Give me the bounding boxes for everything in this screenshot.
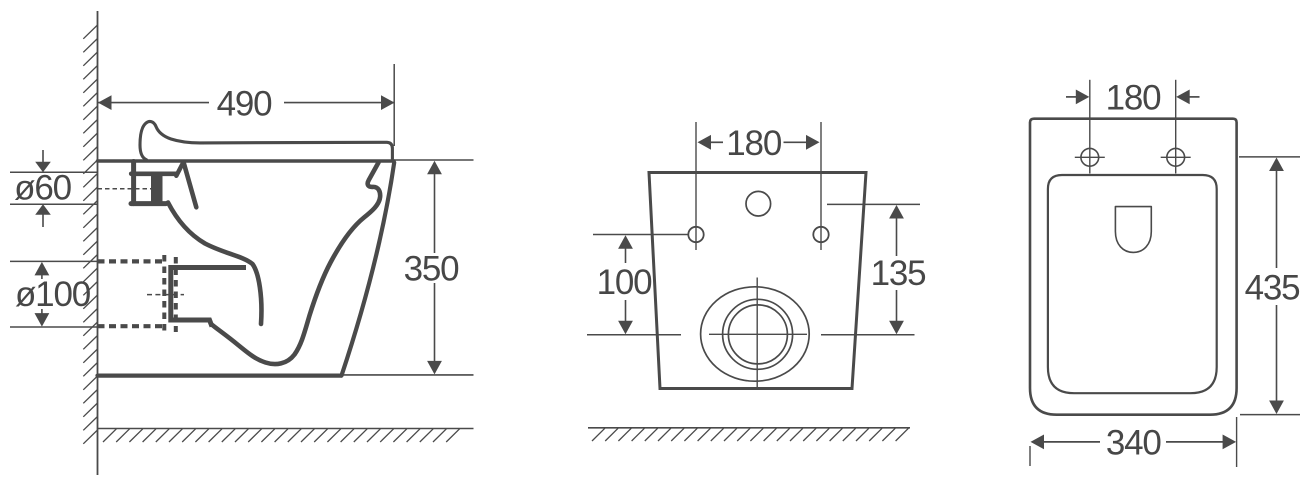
340 right arrowhead <box>1223 435 1237 450</box>
ø60 bottom arrow shaft <box>42 214 44 227</box>
350 dim shaft lower <box>434 283 436 362</box>
100 top ext line <box>593 234 688 236</box>
rim extension thin line <box>394 159 474 161</box>
arrowhead left 490 <box>98 95 112 110</box>
outlet outer ellipse <box>701 287 810 381</box>
arrowhead right 490 <box>381 95 395 110</box>
ground hatching middle <box>592 428 908 441</box>
wall line <box>97 11 99 475</box>
ø60 bottom arrowhead <box>35 204 51 215</box>
135 top ext line <box>827 203 920 205</box>
drain pipe centerline <box>147 294 184 296</box>
thick dashed drain bottom <box>98 324 165 328</box>
svg-text:ø100: ø100 <box>15 275 91 314</box>
dim line 490 right segment <box>284 102 395 104</box>
svg-text:100: 100 <box>597 263 653 302</box>
ø100 dim shaft upper <box>41 272 43 279</box>
dashed flange line right <box>174 257 178 332</box>
rim line <box>98 159 395 162</box>
svg-text:350: 350 <box>404 250 460 289</box>
outlet vertical centerline <box>756 278 758 390</box>
arrowhead right <box>806 135 820 150</box>
arrowhead left <box>698 135 712 150</box>
ext line ø100 bottom <box>10 326 98 328</box>
spud top bar <box>131 172 176 177</box>
ext line ø60 top <box>10 171 98 173</box>
435 bottom ext line <box>1240 414 1300 416</box>
floor hatching <box>103 429 460 442</box>
outlet inner circle <box>728 305 787 364</box>
350 up arrowhead <box>427 161 442 175</box>
svg-text:180: 180 <box>1106 79 1162 118</box>
svg-text:435: 435 <box>1245 269 1300 308</box>
flush channel right diagonal <box>184 162 197 207</box>
water inlet spud <box>131 162 136 204</box>
right fixing hole <box>813 227 828 242</box>
outlet middle circle <box>723 299 793 369</box>
340 left ext line <box>1029 446 1031 466</box>
135 bottom ext line <box>821 334 915 336</box>
seat lid profile <box>140 122 392 160</box>
pedestal front slant line <box>342 163 395 376</box>
ø100 down arrowhead <box>35 313 50 327</box>
inner seat opening <box>1048 175 1217 393</box>
svg-text:ø60: ø60 <box>14 168 71 207</box>
thick dashed drain top <box>98 259 165 263</box>
svg-text:135: 135 <box>871 254 926 293</box>
350 dim shaft upper <box>434 173 436 253</box>
ext line ø100 top <box>10 260 98 262</box>
hinge hole right <box>1167 148 1185 166</box>
floor line <box>98 428 474 430</box>
svg-text:180: 180 <box>726 124 782 163</box>
body trapezoid <box>649 173 866 389</box>
wall hatching <box>83 25 97 444</box>
ø60 top arrow shaft <box>42 150 44 163</box>
outer rim outline <box>1030 119 1237 415</box>
100 up arrowhead <box>618 235 633 249</box>
ground line middle <box>588 427 910 429</box>
100 down arrowhead <box>618 321 633 335</box>
bowl interior curve <box>168 203 261 325</box>
top small hole <box>746 191 771 216</box>
ø100 up arrowhead <box>35 262 50 276</box>
bowl outer back curve <box>212 163 380 365</box>
350 down arrowhead <box>427 361 442 375</box>
svg-text:490: 490 <box>217 84 273 123</box>
ext line right hinge <box>1175 80 1177 174</box>
ø60 top arrowhead <box>35 162 51 173</box>
ext line left hinge <box>1089 80 1091 174</box>
inlet centerline dashed <box>98 188 152 190</box>
340 right ext line <box>1236 417 1238 467</box>
base bottom thick line <box>98 374 342 378</box>
100 bottom ext line <box>587 334 681 336</box>
135 down arrowhead <box>889 321 904 335</box>
dashed flange line left <box>162 255 166 334</box>
flush water spot <box>1115 207 1151 253</box>
drain socket <box>171 268 246 327</box>
arrowhead pointing left <box>1176 90 1190 105</box>
left fixing hole <box>688 227 703 242</box>
dim line 490 left segment <box>98 102 210 104</box>
hinge hole left <box>1081 148 1099 166</box>
base bottom thin extension <box>341 374 474 376</box>
ext line right <box>820 122 822 250</box>
svg-text:340: 340 <box>1106 423 1162 462</box>
arrowhead pointing right <box>1076 90 1090 105</box>
ext line ø60 bottom <box>10 203 98 205</box>
flush channel left diagonal <box>176 163 183 176</box>
135 up arrowhead <box>889 205 904 219</box>
extension line right of 490 <box>393 64 395 146</box>
ø100 dim shaft lower <box>41 309 43 317</box>
435 top ext line <box>1239 156 1300 158</box>
435 down arrowhead <box>1269 401 1284 415</box>
outlet horizontal centerline <box>709 333 807 335</box>
435 up arrowhead <box>1269 158 1284 172</box>
ext line left <box>695 122 697 250</box>
340 left arrowhead <box>1031 435 1045 450</box>
